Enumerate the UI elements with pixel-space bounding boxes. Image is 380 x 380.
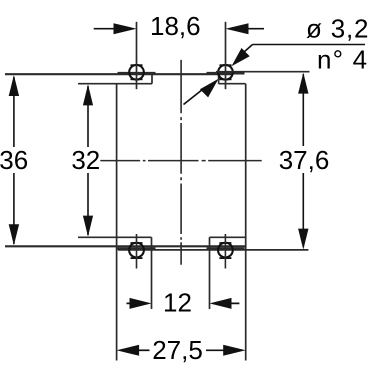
top edge right segment bbox=[219, 83, 246, 85]
body outline right edge (also 27,5 extension) bbox=[245, 84, 247, 361]
long extension line bottom (36 dim) bbox=[5, 245, 246, 247]
leader tail lower segment bbox=[184, 88, 206, 105]
hole top-right vertical centerline / 18,6 extension bbox=[225, 22, 227, 89]
bottom notch step left / 12 extension line bbox=[151, 237, 153, 309]
dimension 32 line upper piece with up arrow bbox=[87, 86, 89, 147]
dimension 37,6 line lower piece with down arrow bbox=[302, 173, 304, 247]
hole top-right tick above bbox=[220, 64, 232, 66]
bottom edge right segment bbox=[210, 236, 246, 238]
top bump step left bbox=[151, 73, 153, 84]
center line vertical (dash-dot) bbox=[180, 60, 182, 265]
svg-text:18,6: 18,6 bbox=[150, 11, 201, 41]
dimension 36 line upper piece with up arrow bbox=[13, 77, 15, 147]
hole bottom-left horizontal centerline bbox=[118, 247, 156, 250]
hole bottom-right horizontal centerline bbox=[207, 247, 245, 250]
hole bottom-left vertical centerline bbox=[136, 234, 138, 269]
dimension 18,6 line left piece with arrow bbox=[94, 28, 116, 30]
hole top-right tick below bbox=[220, 78, 232, 80]
body outline left edge (also 27,5 extension) bbox=[116, 84, 118, 361]
svg-text:n° 4: n° 4 bbox=[317, 44, 368, 74]
hole bottom-right bbox=[218, 243, 233, 258]
top edge left segment (with 32 extension to the left) bbox=[78, 83, 152, 85]
dimension 37,6 extension line top right bbox=[216, 71, 310, 73]
hole top-left bbox=[129, 65, 144, 80]
hole top-left tick below bbox=[131, 78, 143, 80]
hole bottom-right tick below bbox=[219, 257, 231, 259]
center line horizontal (dash-dot) bbox=[100, 160, 261, 162]
hole top-left vertical centerline / 18,6 extension bbox=[136, 22, 138, 89]
svg-text:37,6: 37,6 bbox=[279, 145, 330, 175]
dimension 36 line lower piece with down arrow bbox=[13, 173, 15, 244]
hole top-right bbox=[218, 65, 233, 80]
top bump step right bbox=[218, 73, 220, 84]
dimension 12 line left piece with arrow bbox=[127, 302, 149, 304]
leader line horizontal under diameter label bbox=[253, 44, 366, 46]
hole top-left tick above bbox=[131, 64, 143, 66]
svg-text:32: 32 bbox=[71, 145, 100, 175]
svg-text:ø 3,2: ø 3,2 bbox=[306, 14, 369, 44]
long extension line bottom (37,6 dim / notch bottom edge) bbox=[118, 249, 308, 251]
svg-text:12: 12 bbox=[163, 288, 192, 318]
dimension 27,5 line right piece with arrow pointing right bbox=[206, 349, 224, 351]
hole bottom-right tick above bbox=[219, 242, 231, 244]
hole bottom-left bbox=[129, 243, 144, 258]
dimension 12 line right piece with arrow bbox=[213, 302, 239, 304]
svg-text:36: 36 bbox=[0, 145, 28, 175]
dimension 27,5 line left piece with arrow pointing left bbox=[138, 349, 150, 351]
long extension line through top holes bbox=[5, 73, 232, 75]
leader diagonal upper segment bbox=[244, 45, 253, 53]
dimension 37,6 line upper piece with up arrow bbox=[302, 74, 304, 146]
hole bottom-left tick above bbox=[131, 242, 143, 244]
hole top-left horizontal centerline bbox=[118, 72, 156, 75]
svg-text:27,5: 27,5 bbox=[152, 335, 203, 365]
leader arrowhead lower (points up-right at hole) bbox=[200, 79, 219, 98]
hole bottom-right vertical centerline bbox=[224, 234, 226, 269]
dimension 18,6 line right piece with arrow bbox=[246, 28, 264, 30]
bottom edge left segment (with 32 extension to the left) bbox=[78, 236, 152, 238]
leader arrowhead upper (points down-left at hole) bbox=[232, 48, 250, 66]
bottom notch step right / 12 extension line bbox=[209, 237, 211, 309]
hole top-right horizontal centerline bbox=[207, 72, 245, 75]
dimension 32 line lower piece with down arrow bbox=[87, 173, 89, 235]
hole bottom-left tick below bbox=[131, 257, 143, 259]
